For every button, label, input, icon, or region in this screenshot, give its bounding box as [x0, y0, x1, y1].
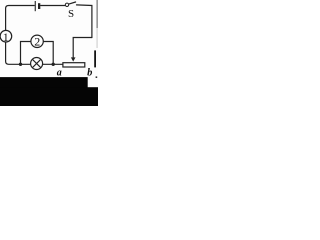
switch S blade (open) — [69, 2, 76, 4]
wire top-left: battery to left corner, down left side to ammeter 1 — [6, 6, 35, 31]
battery cell: long positive plate — [35, 1, 36, 11]
svg-text:2: 2 — [34, 35, 40, 49]
wire top-right: switch to top-right corner, down to jog — [77, 5, 92, 38]
switch S pivot circle — [65, 3, 68, 6]
wire jog to rheostat slider shaft — [73, 38, 92, 59]
svg-text:a: a — [57, 67, 62, 78]
wire top-mid: battery to switch — [41, 5, 65, 7]
svg-text:b: b — [87, 67, 92, 78]
lamp cross stroke 2 — [32, 59, 40, 67]
rheostat slider arrowhead — [71, 57, 76, 61]
meter 2 circle (voltmeter) — [31, 35, 43, 47]
scan black margin: lower full-width part — [0, 87, 98, 106]
scan speck near notch — [96, 76, 98, 78]
scan edge line (right margin, dark upper part) — [97, 0, 98, 28]
svg-text:1: 1 — [3, 30, 9, 44]
wire branch: voltmeter 2 right side down to junction B — [43, 42, 53, 65]
junction node A dot — [19, 63, 22, 66]
scan artifact black bar at right edge — [94, 50, 96, 67]
rheostat body — [63, 63, 85, 67]
scan black margin: main blob — [0, 77, 88, 106]
wire branch: junction A up and right to voltmeter 2 — [21, 42, 31, 65]
junction node B dot — [52, 63, 55, 66]
wire bottom: junction A to lamp — [21, 63, 31, 65]
lamp circle — [31, 58, 43, 70]
scan edge line (right margin, faint lower part) — [96, 28, 99, 48]
wire left lower: ammeter 1 to bottom-left corner to junction A — [6, 42, 21, 64]
wire bottom: lamp to junction B to rheostat terminal a — [43, 63, 63, 65]
battery cell: short thick negative plate — [38, 3, 40, 9]
svg-text:S: S — [68, 8, 74, 20]
lamp cross stroke 1 — [32, 59, 40, 67]
meter 1 circle (ammeter) — [0, 30, 12, 42]
